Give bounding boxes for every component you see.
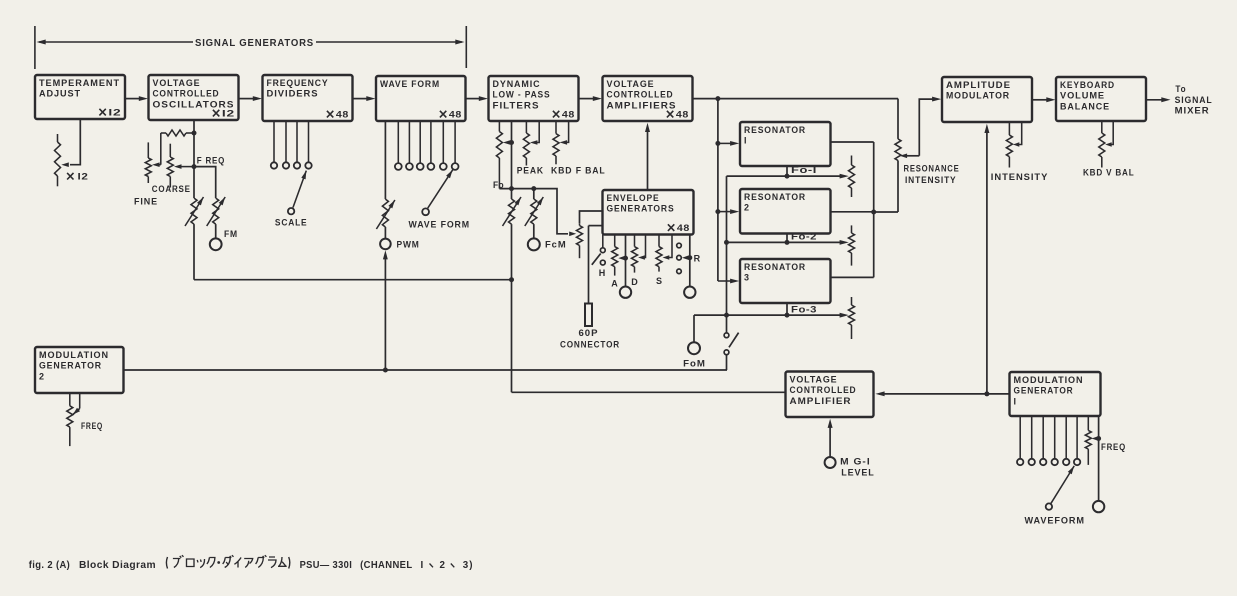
- svg-text:BALANCE: BALANCE: [1060, 101, 1110, 111]
- svg-text:MODULATOR: MODULATOR: [946, 91, 1010, 101]
- svg-text:DYNAMIC: DYNAMIC: [493, 79, 541, 89]
- svg-text:48: 48: [562, 109, 575, 119]
- svg-text:SIGNAL: SIGNAL: [1175, 95, 1213, 105]
- svg-text:GENERATORS: GENERATORS: [607, 204, 675, 214]
- svg-text:PWM: PWM: [397, 239, 420, 249]
- svg-text:ADJUST: ADJUST: [39, 89, 81, 99]
- svg-text:AMPLIFIERS: AMPLIFIERS: [607, 100, 677, 110]
- svg-text:MIXER: MIXER: [1175, 105, 1210, 115]
- svg-text:VOLTAGE: VOLTAGE: [153, 78, 201, 88]
- svg-text:To: To: [1175, 84, 1186, 94]
- svg-text:3: 3: [744, 273, 750, 283]
- svg-text:Fo-2: Fo-2: [791, 232, 817, 242]
- svg-text:D: D: [631, 277, 638, 287]
- svg-text:MODULATION: MODULATION: [39, 350, 109, 360]
- svg-text:RESONATOR: RESONATOR: [744, 125, 806, 135]
- svg-text:I: I: [421, 560, 424, 571]
- svg-text:VOLUME: VOLUME: [1060, 91, 1105, 101]
- svg-text:2: 2: [39, 371, 45, 381]
- svg-text:DIVIDERS: DIVIDERS: [267, 89, 319, 99]
- svg-text:FoM: FoM: [683, 359, 706, 369]
- svg-text:INTENSITY: INTENSITY: [991, 172, 1049, 182]
- svg-text:FINE: FINE: [134, 197, 158, 207]
- svg-text:RESONATOR: RESONATOR: [744, 262, 806, 272]
- svg-text:KEYBOARD: KEYBOARD: [1060, 80, 1115, 90]
- svg-text:I2: I2: [108, 107, 121, 117]
- svg-text:FcM: FcM: [545, 240, 567, 250]
- svg-text:FREQUENCY: FREQUENCY: [267, 78, 329, 88]
- svg-text:I2: I2: [78, 172, 89, 182]
- svg-text:60P: 60P: [579, 328, 599, 338]
- svg-text:3: 3: [463, 560, 469, 571]
- svg-text:S: S: [656, 276, 663, 286]
- svg-text:48: 48: [677, 223, 690, 233]
- svg-text:R: R: [694, 253, 701, 263]
- svg-text:VOLTAGE: VOLTAGE: [790, 375, 838, 385]
- svg-text:PEAK: PEAK: [517, 166, 544, 176]
- svg-text:48: 48: [336, 109, 349, 119]
- svg-text:GENERATOR: GENERATOR: [1014, 386, 1074, 396]
- svg-text:): ): [469, 560, 472, 571]
- svg-text:COARSE: COARSE: [152, 184, 191, 194]
- svg-text:Fo-3: Fo-3: [791, 304, 817, 314]
- svg-text:CONNECTOR: CONNECTOR: [560, 340, 620, 350]
- svg-text:fig. 2 (A): fig. 2 (A): [29, 560, 70, 571]
- svg-text:I: I: [744, 136, 747, 146]
- svg-text:FREQ: FREQ: [81, 421, 103, 431]
- svg-text:SCALE: SCALE: [275, 218, 308, 228]
- svg-text:GENERATOR: GENERATOR: [39, 361, 102, 371]
- svg-text:KBD V BAL: KBD V BAL: [1083, 168, 1135, 178]
- svg-text:WAVE FORM: WAVE FORM: [380, 79, 440, 89]
- svg-text:LOW - PASS: LOW - PASS: [493, 90, 551, 100]
- svg-text:LEVEL: LEVEL: [841, 468, 875, 478]
- svg-text:VOLTAGE: VOLTAGE: [607, 79, 655, 89]
- svg-text:ENVELOPE: ENVELOPE: [607, 193, 660, 203]
- svg-text:AMPLITUDE: AMPLITUDE: [946, 80, 1011, 90]
- svg-text:48: 48: [676, 109, 689, 119]
- svg-text:I2: I2: [222, 108, 235, 118]
- svg-text:FM: FM: [224, 229, 238, 239]
- svg-text:SIGNAL GENERATORS: SIGNAL GENERATORS: [195, 37, 314, 49]
- svg-text:2: 2: [440, 560, 446, 571]
- svg-text:WAVE FORM: WAVE FORM: [409, 220, 471, 230]
- svg-text:FREQ: FREQ: [1101, 442, 1126, 452]
- svg-text:A: A: [611, 279, 618, 289]
- svg-text:TEMPERAMENT: TEMPERAMENT: [39, 78, 120, 88]
- svg-text:AMPLIFIER: AMPLIFIER: [790, 396, 852, 406]
- svg-text:CONTROLLED: CONTROLLED: [607, 90, 674, 100]
- svg-text:PSU— 330I: PSU— 330I: [300, 560, 353, 571]
- svg-text:M G-I: M G-I: [840, 457, 871, 467]
- svg-text:INTENSITY: INTENSITY: [905, 175, 957, 185]
- svg-text:Block Diagram: Block Diagram: [79, 560, 156, 571]
- svg-text:KBD F BAL: KBD F BAL: [551, 166, 606, 176]
- svg-text:F REQ: F REQ: [197, 156, 225, 166]
- svg-text:2: 2: [744, 203, 750, 213]
- svg-text:H: H: [599, 268, 606, 278]
- svg-text:CONTROLLED: CONTROLLED: [153, 89, 220, 99]
- svg-text:48: 48: [449, 109, 462, 119]
- svg-text:Fo-I: Fo-I: [791, 165, 817, 175]
- svg-text:CONTROLLED: CONTROLLED: [790, 385, 857, 395]
- svg-text:WAVEFORM: WAVEFORM: [1025, 516, 1085, 526]
- svg-text:FILTERS: FILTERS: [493, 100, 540, 110]
- svg-text:MODULATION: MODULATION: [1014, 375, 1084, 385]
- svg-text:RESONANCE: RESONANCE: [904, 164, 960, 174]
- svg-text:I: I: [1014, 396, 1017, 406]
- svg-text:(CHANNEL: (CHANNEL: [360, 560, 412, 571]
- svg-text:RESONATOR: RESONATOR: [744, 192, 806, 202]
